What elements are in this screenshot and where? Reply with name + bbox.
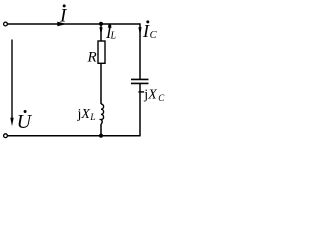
node junction bottom: [99, 134, 103, 138]
svg-text:jX: jX: [143, 88, 157, 103]
terminal bottom-left: [4, 134, 8, 138]
svg-text:U: U: [17, 111, 33, 133]
current arrow I_C: [138, 27, 141, 35]
wire middle branch top: [100, 24, 102, 41]
inductor L coil: [101, 104, 104, 124]
label I (dot): [63, 4, 66, 7]
label I_C (dot): [146, 20, 149, 23]
capacitor C plates: [131, 79, 149, 83]
wire right branch lower: [139, 84, 141, 137]
svg-text:R: R: [87, 49, 97, 65]
voltage arrow U head: [10, 118, 13, 127]
voltage arrow U line: [11, 40, 13, 119]
svg-text:L: L: [110, 30, 117, 41]
resistor R box: [98, 41, 105, 63]
terminal top-left: [4, 22, 8, 26]
svg-text:jX: jX: [77, 107, 91, 122]
wire top rail: [7, 23, 140, 25]
svg-text:C: C: [150, 30, 158, 41]
label I_L (dot): [108, 24, 111, 27]
svg-text:C: C: [158, 93, 165, 103]
svg-text:L: L: [89, 113, 95, 123]
wire middle branch between R and L: [100, 63, 102, 104]
current arrow I_L: [99, 27, 102, 35]
label -jX_C (minus): [138, 91, 144, 93]
current arrow I on top rail: [57, 22, 66, 27]
wire bottom rail: [7, 135, 140, 137]
label U (dot): [24, 110, 27, 113]
wire middle branch bottom: [100, 124, 102, 136]
node junction top: [99, 22, 103, 26]
wire right branch upper: [139, 23, 141, 79]
